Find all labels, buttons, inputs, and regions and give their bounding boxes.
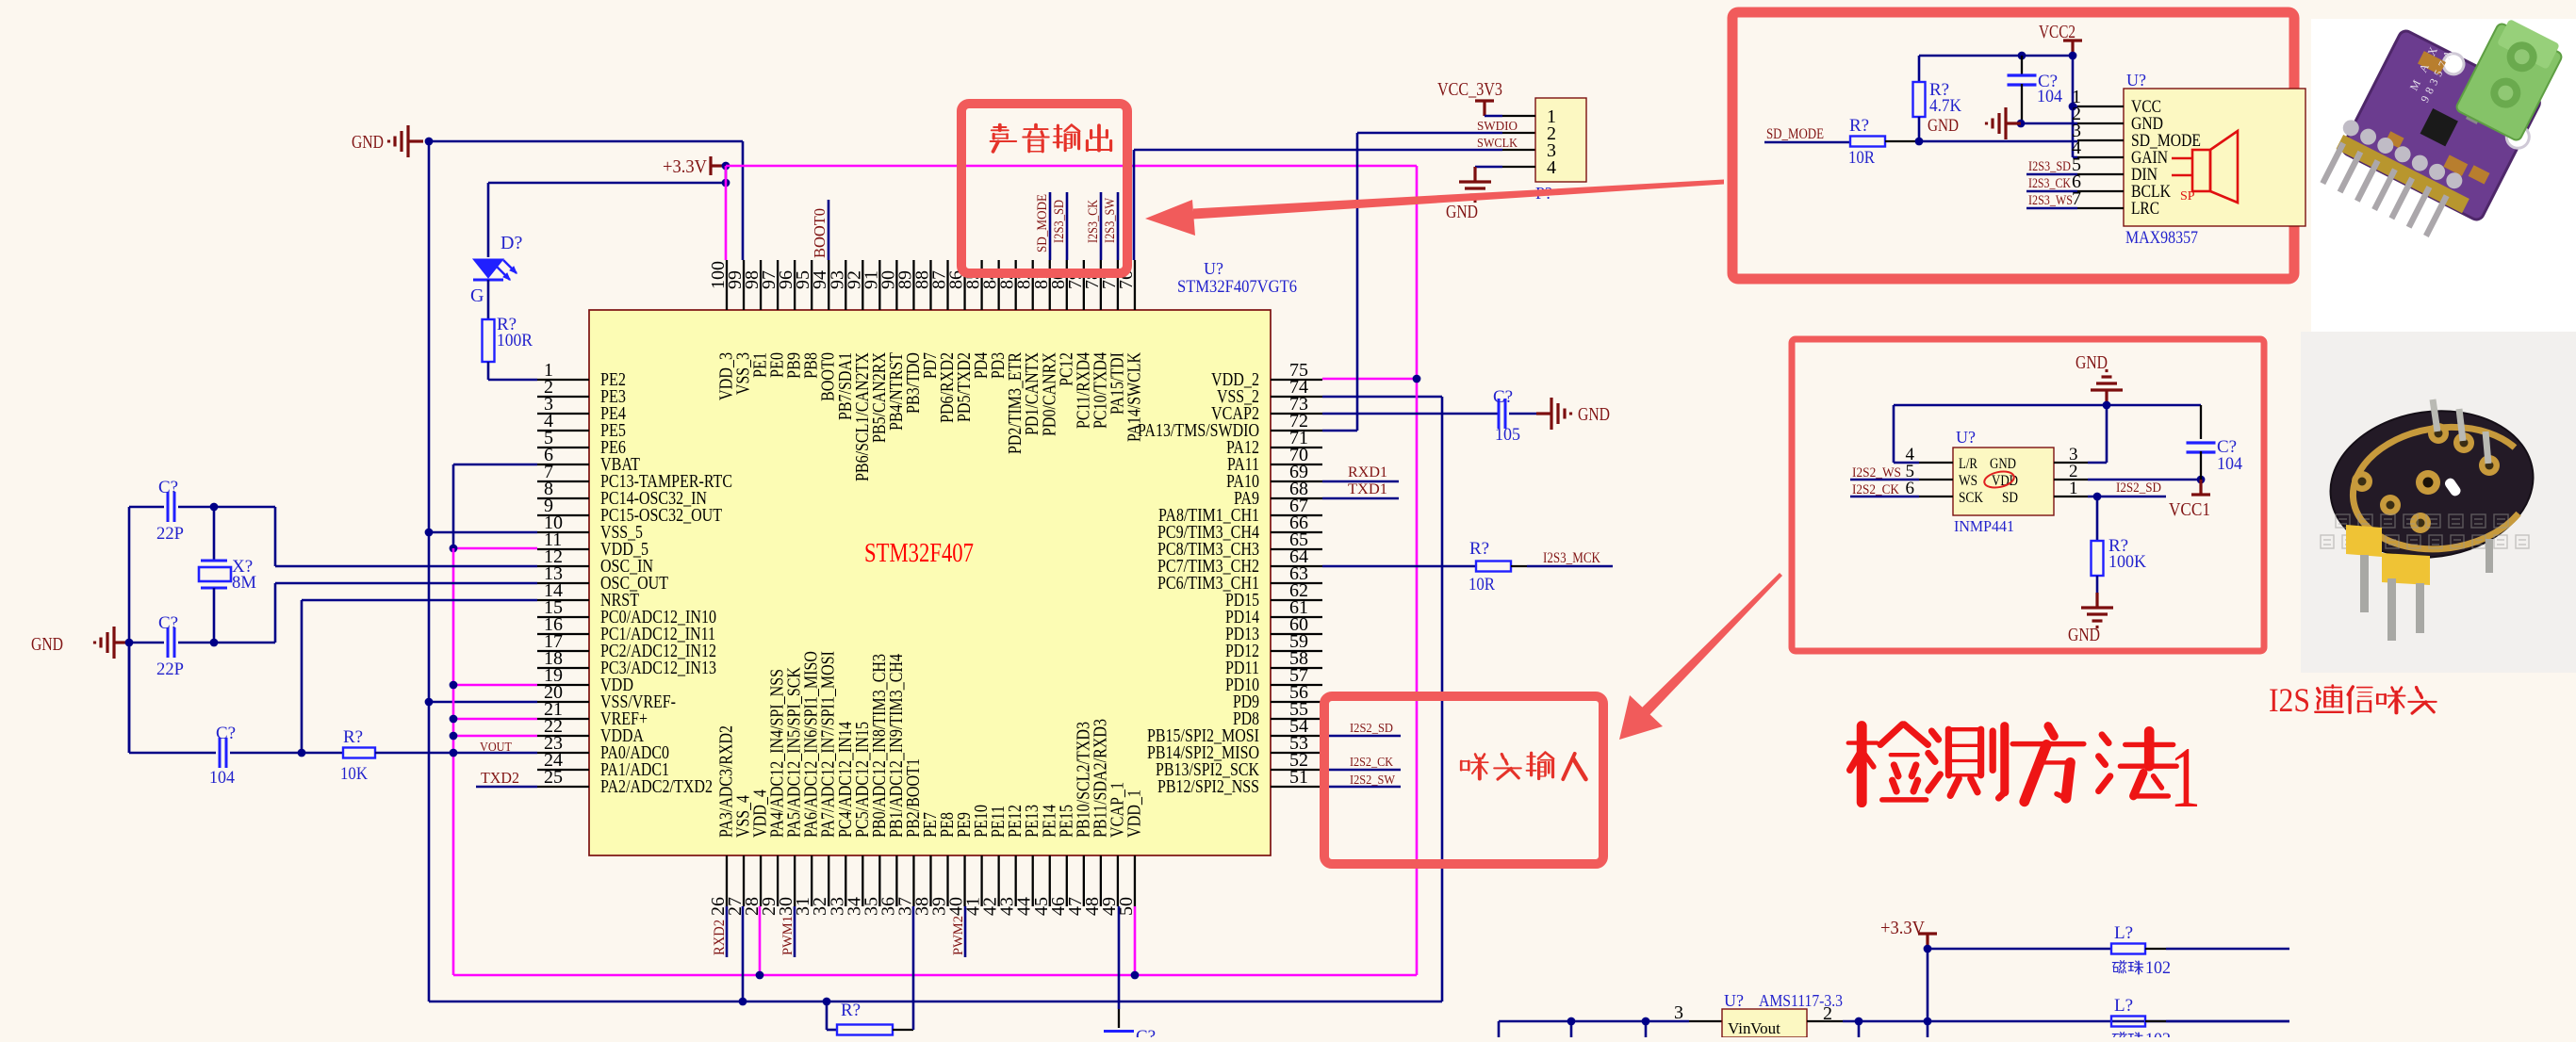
pin 7 LRC MAX [2077,207,2124,209]
capacitor C? 104 MAX box [2021,56,2023,76]
pin 66 PC9/TIM3_CH4 [1271,531,1322,533]
svg-text:2: 2 [1823,1003,1832,1024]
pin 35 PB0/ADC12_IN8/TIM3_CH3 [878,855,880,906]
pin 25 PA2/ADC2/TXD2 [537,786,589,788]
text jian-ce-fang-fa-1 (detection method 1) [1848,725,1928,803]
svg-text:GND: GND [1928,116,1959,136]
pin 31 PA6/ADC12_IN6/SPI1_MISO [811,855,812,906]
svg-text:PA2/ADC2/TXD2: PA2/ADC2/TXD2 [600,776,713,797]
wire VREF+ pin21 [453,718,537,721]
svg-text:GND: GND [1990,456,2016,472]
pin 70 PA11 [1271,464,1322,465]
pin 11 VDD_5 [537,548,589,550]
pin 56 PD9 [1271,701,1322,703]
svg-text:104: 104 [209,768,235,788]
svg-text:Vin: Vin [1728,1019,1751,1037]
svg-text:3: 3 [1674,1002,1683,1023]
svg-text:SD_MODE: SD_MODE [1766,126,1824,142]
svg-text:I2S3_WS: I2S3_WS [2028,193,2073,208]
annotation arrow 1 (to sound output box) [1193,180,1724,220]
svg-text:MAX98357: MAX98357 [2125,228,2198,248]
svg-text:C?: C? [158,478,178,497]
svg-text:I2S2_SD: I2S2_SD [1350,722,1393,736]
svg-text:104: 104 [2037,87,2062,106]
svg-text:GND: GND [1578,404,1610,425]
pin 44 PE13 [1032,855,1034,906]
wire VDDA pin22 [453,735,537,738]
svg-text:BOOT0: BOOT0 [811,208,829,258]
pin 53 PB14/SPI2_MISO [1271,752,1322,754]
svg-text:SD: SD [2002,490,2018,506]
pin 39 PE8 [946,855,948,906]
svg-text:SD_MODE: SD_MODE [1035,194,1050,252]
capacitor C? 104 INMP [2200,405,2202,439]
pin 6 BCLK MAX [2077,190,2124,192]
pin 17 PC2/ADC12_IN12 [537,650,589,652]
pin 88 PD7 [929,260,931,310]
pin 98 PE1 [760,260,762,310]
pin 41 PE10 [980,855,982,906]
power VCC2 [2063,41,2082,56]
pin 14 NRST [537,599,589,601]
wire resistor to pin 1 [487,362,490,380]
svg-text:RXD2: RXD2 [712,920,728,955]
svg-text:SWDIO: SWDIO [1477,120,1518,134]
wire VDD_4 pin28 [759,906,762,975]
resistor R? 4.7K [1913,82,1926,117]
capacitor C? 104 lower-left [128,643,131,753]
svg-text:I2S3_SD: I2S3_SD [2028,159,2071,174]
pin 2 PE3 [537,396,589,398]
svg-text:PA14/SWCLK: PA14/SWCLK [1124,352,1144,442]
svg-text:PB12/SPI2_NSS: PB12/SPI2_NSS [1157,776,1259,797]
wire VDD net magenta loop [453,547,537,550]
svg-text:L/R: L/R [1959,456,1977,472]
wire LED to resistor [487,280,490,319]
svg-text:U?: U? [1204,259,1223,278]
speaker SP icon [2172,131,2238,203]
photo background gray (INMP441 module photo) [2301,332,2576,673]
capacitor C? 105 on VCAP2 pin73 [1322,413,1499,415]
crystal X? 8M [213,507,216,560]
wire NRST pin14 [301,600,304,753]
resistor R? 10K [343,748,375,758]
pin 13 OSC_OUT [537,582,589,584]
svg-text:TXD2: TXD2 [481,769,519,787]
svg-text:105: 105 [1495,425,1520,445]
watermark rows (approximated) [2321,514,2529,548]
svg-text:R?: R? [841,1001,861,1020]
capacitor C? 22P bottom [129,642,164,644]
pin 7 PC13-TAMPER-RTC [537,480,589,482]
pin 49 VCAP_1 [1117,855,1119,906]
pin 77 PA15/TDI [1117,260,1119,310]
pin 84 PD3 [997,260,999,310]
svg-text:U?: U? [1724,991,1744,1010]
green screw terminal on module [2455,15,2568,141]
amplifier U? MAX98357 [2124,89,2305,226]
pin 61 PD14 [1271,616,1322,618]
svg-text:SCK: SCK [1959,490,1983,506]
svg-text:PWM2: PWM2 [951,916,966,955]
pin 78 PC10/TXD4 [1100,260,1102,310]
svg-text:1: 1 [2170,729,2201,825]
photo: MAX98357 purple module board [2316,23,2550,257]
svg-text:C?: C? [1493,387,1513,407]
svg-text:TXD1: TXD1 [1348,481,1387,497]
pin 36 PB1/ADC12_IN9/TIM3_CH4 [895,855,897,906]
pin 4 PE5 [537,430,589,431]
pin 85 PD4 [980,260,982,310]
pin 3 PE4 [537,413,589,415]
wire to pin4 GAIN [2073,156,2077,159]
svg-text:D?: D? [500,233,522,253]
wire SWDIO pin72 to connector pin2 [1322,430,1357,432]
pin 33 PC4/ADC12_IN14 [845,855,846,906]
capacitor C? on VCAP_1 pin49 [1118,906,1121,1009]
svg-text:7: 7 [2072,188,2081,209]
pin 79 PC11/RXD4 [1083,260,1085,310]
pin 28 VDD_4 [760,855,762,906]
wire VSS/VREF- pin20 to GND rail [429,701,537,704]
svg-text:G: G [470,285,484,306]
text sheng-yin-shu-chu (sound output) [991,125,1017,152]
svg-text:100K: 100K [2108,552,2146,572]
ground GND C105 [1536,398,1571,430]
annotation red box sound output [961,104,1127,273]
pin 74 VSS_2 [1271,396,1322,398]
svg-text:I2S3_CK: I2S3_CK [1086,200,1101,243]
pin 54 PB15/SPI2_MOSI [1271,735,1322,737]
svg-text:C?: C? [158,613,178,633]
wire GND to pin2 [2021,122,2077,125]
wire right VSS riser to pin 74 [1441,397,1444,1001]
pin 20 VSS/VREF- [537,701,589,703]
svg-text:+3.3V: +3.3V [663,156,708,177]
svg-text:PWM1: PWM1 [780,916,796,955]
svg-text:I2S2_CK: I2S2_CK [1350,756,1393,770]
pin 21 VREF+ [537,718,589,720]
photo: INMP441 round mic module [2321,399,2543,641]
pin 92 PB6/SCL1/CAN2TX [861,260,863,310]
svg-text:I2S3_SW: I2S3_SW [1103,197,1118,243]
pin 2 INMP right [2054,479,2088,480]
svg-text:VOUT: VOUT [480,741,512,755]
capacitor C? 104 INMP [2187,443,2216,452]
annotation red box MAX98357 [1732,12,2294,279]
net stub SD_MODE pin81 [1049,192,1052,260]
resistor R? 100K [2096,497,2099,541]
svg-text:I2S: I2S [2269,681,2310,719]
svg-text:22P: 22P [156,659,184,679]
pin 89 PB3/TDO [912,260,914,310]
resistor R? 100R [483,319,495,362]
pin 95 PB8 [811,260,812,310]
connector P? 4-pin header [1535,98,1586,182]
pin 30 PA5/ADC12_IN5/SPI_SCK [794,855,796,906]
pin 45 PE14 [1049,855,1051,906]
svg-text:C?: C? [1136,1027,1156,1037]
wire SD_MODE to pin3 [1919,140,2077,143]
pin 46 PE15 [1066,855,1068,906]
wire R10K to pin 23 PA0 [375,752,537,755]
pin 42 PE11 [997,855,999,906]
pin 32 PA7/ADC12_IN7/SPI1_MOSI [828,855,829,906]
resistor R? 10R MAX [1850,137,1885,147]
pin 67 PA8/TIM1_CH1 [1271,514,1322,516]
svg-text:100R: 100R [497,331,533,350]
wire SWCLK pin76 to connector pin3 [1134,149,1502,152]
svg-text:GND: GND [31,634,63,655]
pin 47 PB10/SCL2/TXD3 [1083,855,1085,906]
pin 29 PA4/ADC12_IN4/SPI_NSS [777,855,779,906]
net stub PWM1 pin30 [794,906,796,957]
svg-text:C?: C? [216,724,236,743]
pin 100 VDD_3 [726,260,728,310]
svg-text:I2S3_MCK: I2S3_MCK [1543,550,1601,566]
net stub I2S3_SW pin77 [1117,192,1120,260]
svg-text:WS: WS [1959,473,1977,489]
inductor L? bead2 [2111,1017,2145,1027]
pin 76 PA14/SWCLK [1134,260,1136,310]
pin 22 VDDA [537,735,589,737]
pin 15 PC0/ADC12_IN10 [537,616,589,618]
pin 1 INMP right [2054,496,2088,497]
pin 80 PC12 [1066,260,1068,310]
pin 65 PC8/TIM3_CH3 [1271,548,1322,550]
pin 12 OSC_IN [537,565,589,567]
pin 18 PC3/ADC12_IN13 [537,667,589,669]
pin 59 PD12 [1271,650,1322,652]
svg-text:STM32F407VGT6: STM32F407VGT6 [1177,278,1297,297]
pin 40 PE9 [963,855,965,906]
pin 5 DIN MAX [2077,173,2124,175]
pin 5 PE6 [537,447,589,448]
pin 26 PA3/ADC3/RXD2 [726,855,728,906]
wire to pin1 VCC [2073,106,2077,108]
wire pin3 GND riser [2088,462,2107,464]
pin 68 PA9 [1271,497,1322,499]
resistor R? bottom [837,1025,893,1035]
svg-text:25: 25 [544,767,563,788]
pin 2 GND MAX [2077,122,2124,124]
inductor L? ferrite bead 1 [1928,948,2111,951]
wire crystal left rail [128,507,131,753]
pin 50 VDD_1 [1134,855,1136,906]
svg-text:U?: U? [1956,428,1976,447]
STM32F407 chip body U? [589,310,1271,855]
wire AMS1117 input rail [1499,1020,1689,1023]
svg-text:U?: U? [2126,71,2146,90]
wire +3.3V to LED branch [725,166,728,183]
ground GND connector [1459,167,1491,202]
pin 57 PD10 [1271,684,1322,686]
pin 27 VSS_4 [743,855,745,906]
text mi-tou-shu-ru (mic input) [1461,755,1488,779]
svg-text:SP: SP [2180,189,2195,204]
pin 63 PC6/TIM3_CH1 [1271,582,1322,584]
annotation red box mic input [1324,696,1603,864]
wire VSS_5 pin10 to GND rail [429,531,537,534]
pin 51 PB12/SPI2_NSS [1271,786,1322,788]
pin 9 PC15-OSC32_OUT [537,514,589,516]
resistor R? 10R right [1476,562,1511,572]
pin 38 PE7 [929,855,931,906]
net stub BOOT0 pin94 [828,200,830,260]
pin 60 PD13 [1271,633,1322,635]
svg-text:STM32F407: STM32F407 [864,539,974,568]
text ci-zhu-102 (ferrite bead) label 1 [2112,961,2126,973]
capacitor C? 105 [1499,399,1505,429]
capacitor C? 22P top [168,492,174,522]
resistor R? 4.7K [1918,56,1921,82]
pin 34 PC5/ADC12_IN15 [861,855,863,906]
svg-text:LRC: LRC [2131,199,2159,219]
svg-text:1: 1 [2069,479,2078,498]
svg-text:22P: 22P [156,524,184,544]
svg-text:104: 104 [2217,454,2242,474]
wire OSC_OUT pin13 [274,583,277,643]
svg-text:GND: GND [2068,625,2100,645]
pin 23 PA0/ADC0 [537,752,589,754]
svg-text:I2S3_SD: I2S3_SD [1052,200,1067,243]
microphone U? INMP441 [1953,448,2054,515]
pin 10 VSS_5 [537,531,589,533]
pin 1 PE2 [537,379,589,381]
pin 52 PB13/SPI2_SCK [1271,769,1322,771]
resistor R? 100K [2092,541,2104,576]
resistor R? bottom (BOOT1 pulldown) [823,998,831,1006]
pin 1 VCC MAX [2077,106,2124,107]
pin 86 PD5/TXD2 [963,260,965,310]
svg-text:8M: 8M [232,573,256,593]
svg-text:I2S3_CK: I2S3_CK [2028,176,2071,191]
svg-text:102: 102 [2145,958,2171,978]
resistor R? 10R to I2S3_MCK pin64 [1322,565,1476,568]
capacitor C? 104 MAX [2008,75,2037,85]
pin 6 VBAT [537,464,589,465]
ground GND crystal [95,627,130,659]
wire VDD_2 pin75 [1322,378,1417,381]
capacitor C? 22P top [129,506,164,509]
svg-text:R?: R? [343,727,363,747]
net stub I2S3_SD pin80 [1066,192,1069,260]
svg-text:GND: GND [352,132,384,153]
svg-text:SWCLK: SWCLK [1477,137,1518,151]
regulator U? AMS1117-3.3 [1722,1009,1807,1037]
pin 96 PB9 [794,260,796,310]
svg-text:102: 102 [2145,1030,2171,1037]
svg-text:10R: 10R [1848,148,1875,168]
net stub PWM2 pin40 [964,906,967,957]
red scribble annotation over VDD [1983,469,2016,490]
power VCC1 [2191,480,2210,495]
wire pin1 SD [2088,496,2166,498]
inductor L? bead1 [2111,944,2145,954]
pin 82 PD1/CANTX [1032,260,1034,310]
ground GND top-left [389,125,424,157]
pin 37 PB2/BOOT1 [912,855,914,906]
wire pin2 VDD to C104 [2088,479,2201,481]
pin 19 VDD [537,684,589,686]
svg-text:VCC_3V3: VCC_3V3 [1437,79,1502,100]
svg-text:I2S2_CK: I2S2_CK [1852,482,1899,497]
pin 58 PD11 [1271,667,1322,669]
pin 71 PA12 [1271,447,1322,448]
svg-text:RXD1: RXD1 [1348,464,1387,480]
pin 94 BOOT0 [828,260,829,310]
photo background white (MAX98357 module photo) [2311,19,2576,332]
pin 69 PA10 [1271,480,1322,482]
wire VDD pin19 [453,684,537,687]
pin 81 PD0/CANRX [1049,260,1051,310]
pin 55 PD8 [1271,718,1322,720]
net stub I2S3_CK pin78 [1100,192,1103,260]
pin 75 VDD_2 [1271,379,1322,381]
svg-text:4: 4 [1547,157,1556,178]
pin 62 PD15 [1271,599,1322,601]
svg-text:R?: R? [1849,116,1869,136]
svg-text:+3.3V: +3.3V [1880,918,1926,938]
svg-text:51: 51 [1289,767,1308,788]
svg-text:I2S2_SD: I2S2_SD [2116,480,2161,496]
power +3.3V bottom [1918,934,1937,949]
svg-text:10R: 10R [1468,575,1495,594]
svg-text:10K: 10K [340,764,368,784]
pin 99 VSS_3 [743,260,745,310]
svg-text:GND: GND [2076,352,2108,373]
pin 4 INMP left [1919,462,1953,464]
svg-text:I2S2_WS: I2S2_WS [1852,465,1901,480]
svg-text:Vout: Vout [1750,1019,1780,1037]
pin 43 PE12 [1015,855,1017,906]
pin 16 PC1/ADC12_IN11 [537,633,589,635]
connector pin4 to ground [1475,166,1502,169]
svg-text:L?: L? [2114,923,2133,943]
pin 24 PA1/ADC1 [537,769,589,771]
ground GND INMP top [2091,371,2123,406]
power +3.3V [711,156,726,175]
pin 5 INMP left [1919,479,1953,480]
pin 97 PE0 [777,260,779,310]
wire bottom VSS rail [429,1001,1442,1003]
wire OSC_IN pin12 [274,507,277,566]
capacitor C? 104 [220,738,226,768]
capacitor C? 22P bottom [168,627,174,658]
svg-text:R?: R? [1469,539,1489,559]
pin 6 INMP left [1919,496,1953,497]
LED D? [473,259,517,280]
power VCC_3V3 [1475,101,1494,116]
net stub RXD2 pin26 [726,906,729,957]
wire VDD_1 pin50 [1134,906,1137,975]
pin 4 GAIN MAX [2077,156,2124,158]
pin 87 PD6/RXD2 [946,260,948,310]
pin 48 PB11/SDA2/RXD3 [1100,855,1102,906]
pin 91 PB5/CAN2RX [878,260,880,310]
pin 72 PA13/TMS/SWDIO [1271,430,1322,431]
pin 93 PB7/SDA1 [845,260,846,310]
pin 83 PD2/TIM3_ETR [1015,260,1017,310]
wire INMP top rail [1894,404,2201,407]
wire GND rail to pin99 and down to bottom rail [429,140,743,143]
svg-text:INMP441: INMP441 [1954,517,2014,535]
wire VCC2 rail [1919,55,2073,57]
svg-text:VDD_1: VDD_1 [1124,790,1144,838]
svg-text:VCC1: VCC1 [2169,499,2210,520]
wire VSS_4 pin27 to rail [742,906,745,1001]
ground GND INMP bottom [2081,593,2113,627]
